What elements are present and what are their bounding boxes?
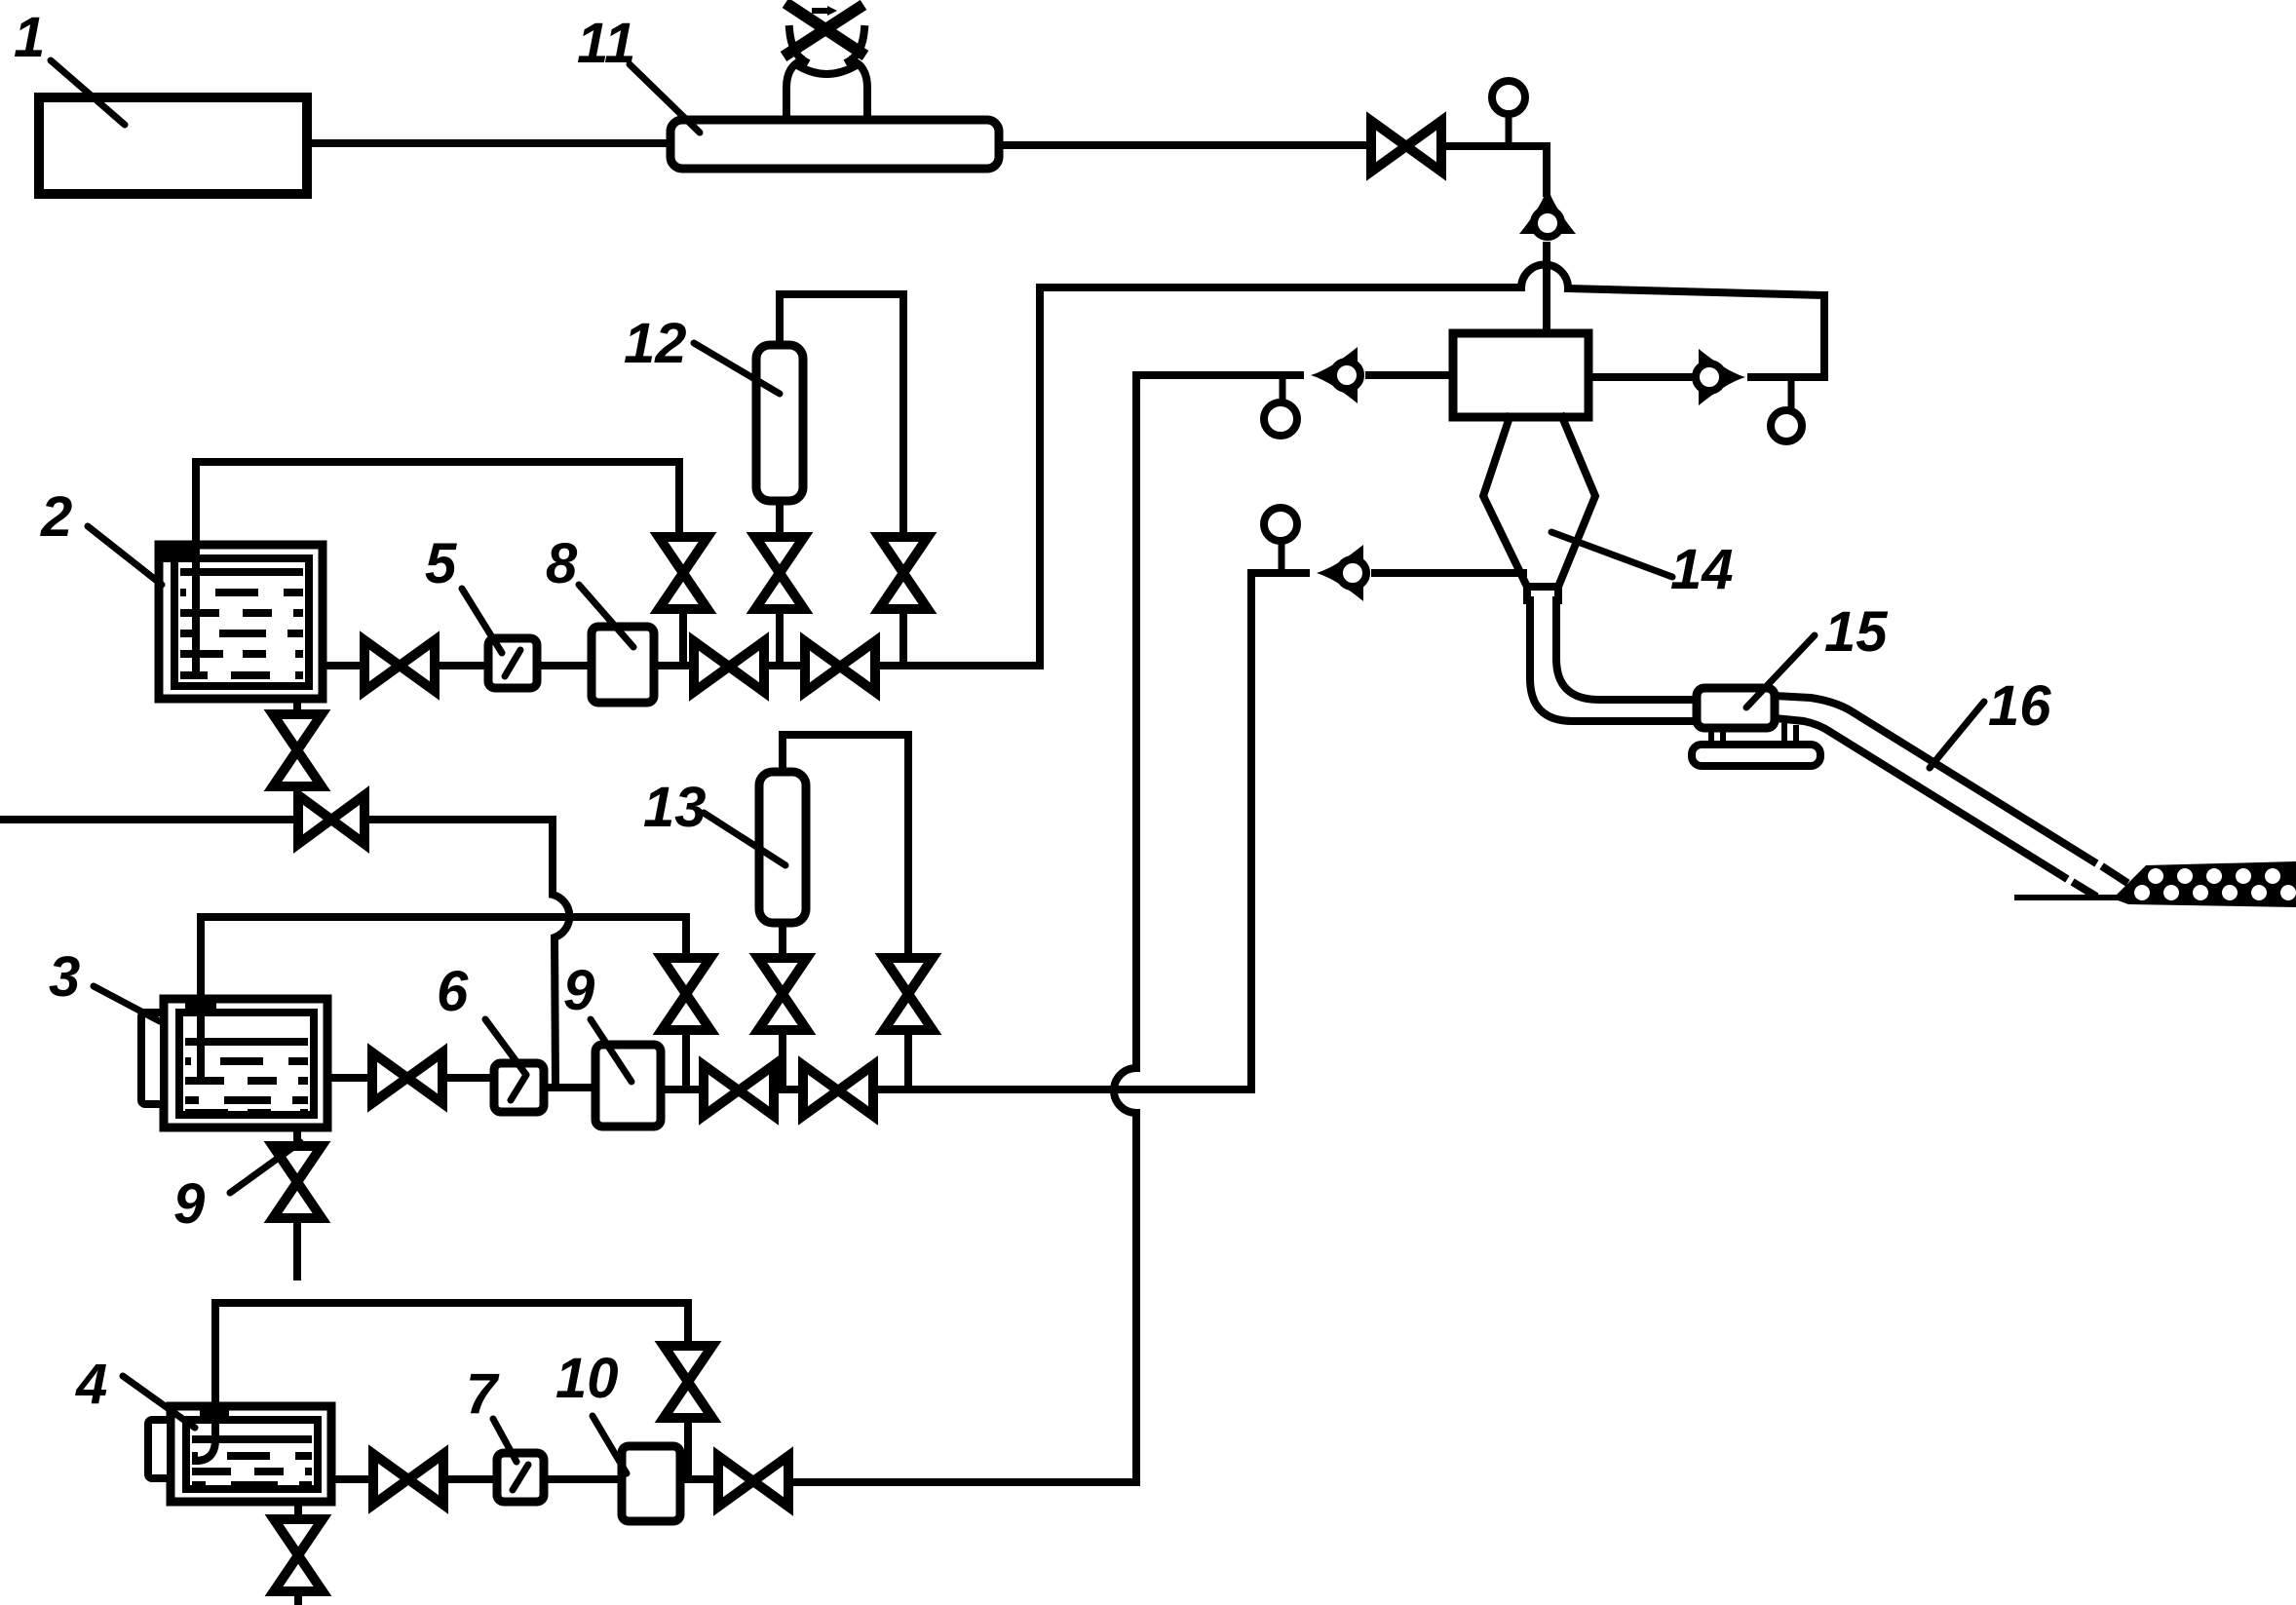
svg-text:3: 3 <box>49 945 80 1009</box>
check valve lower feed <box>1317 545 1366 601</box>
granule pile <box>2113 861 2296 907</box>
wire check valve to venturi <box>1375 569 1523 577</box>
tank 2 <box>159 545 323 699</box>
valve under rotameter 13 <box>758 958 807 1030</box>
valve manifold3 left <box>704 1065 774 1116</box>
wire dryer 7 to heater 10 <box>544 1475 622 1483</box>
svg-text:2: 2 <box>40 485 72 549</box>
svg-text:10: 10 <box>555 1347 619 1410</box>
valve on top line <box>1371 121 1441 172</box>
burner symbol on mixer 11 <box>784 3 867 120</box>
svg-text:12: 12 <box>624 312 687 375</box>
label 4 <box>75 1353 195 1428</box>
tank 4 <box>148 1406 331 1502</box>
wire valve to dryer 5 <box>435 662 488 669</box>
tank 4 drain outlet <box>294 1591 302 1603</box>
svg-text:14: 14 <box>1670 538 1734 601</box>
ground line at discharge <box>2014 895 2149 900</box>
valve tank3 loop <box>662 958 710 1030</box>
svg-text:6: 6 <box>437 960 469 1023</box>
water line to drop with hop <box>364 820 569 1084</box>
tank 3 drain pipe <box>293 1127 301 1146</box>
label 15 <box>1746 600 1888 707</box>
svg-text:8: 8 <box>546 532 578 595</box>
svg-text:15: 15 <box>1824 600 1888 664</box>
wire drain valve to water line <box>293 786 301 820</box>
label 11 <box>577 12 700 133</box>
wire bypass valve to manifold2 <box>899 609 907 666</box>
valve on water line <box>298 795 364 844</box>
label 12 <box>624 312 780 394</box>
pipe riser from tank4 line with hop over manifold3 <box>787 375 1136 1482</box>
injector 14 venturi body <box>1483 417 1595 600</box>
wire valve to dryer 7 <box>443 1475 497 1483</box>
svg-text:1: 1 <box>14 6 45 69</box>
valve under rotameter 12 <box>755 537 804 609</box>
label 1 <box>14 6 125 125</box>
wire bypass valve to manifold3 <box>904 1030 912 1089</box>
valve tank2 loop <box>659 537 708 609</box>
label 5 <box>425 532 502 653</box>
wire check valve to distributor right <box>1588 373 1689 381</box>
wire dryer 6 to heater 9 <box>544 1084 595 1091</box>
wire valve to manifold3 <box>779 1030 786 1089</box>
wire valve to dryer 6 <box>442 1074 494 1082</box>
dryer 6 <box>494 1063 544 1112</box>
nozzle 15 <box>1692 688 1820 766</box>
label 6 <box>437 960 526 1075</box>
check valve right feed <box>1696 349 1745 405</box>
manifold tank3 row <box>661 1086 1251 1093</box>
svg-text:13: 13 <box>643 776 707 839</box>
label 8 <box>546 532 633 647</box>
valve tank4 loop <box>664 1346 712 1418</box>
wire tank1 to mixer 11 <box>307 139 670 147</box>
tank 2 drain valve <box>273 714 322 786</box>
valve tank2 outlet <box>364 640 435 691</box>
label 9 drain <box>173 1142 300 1236</box>
check valve up <box>1519 187 1576 237</box>
label 3 <box>49 945 160 1021</box>
dryer 7 <box>497 1453 544 1502</box>
wire valve to corner <box>1441 146 1547 193</box>
tank 3 drain valve <box>273 1146 322 1218</box>
wire heater 10 to valve <box>680 1475 719 1483</box>
water line from left edge <box>0 816 298 823</box>
pipe main header with hop <box>1043 264 1824 295</box>
valve bypass 12 <box>879 537 928 609</box>
rotameter 12 <box>756 345 803 501</box>
wire valve to manifold2 <box>776 609 784 666</box>
label 13 <box>643 776 785 865</box>
manifold tank2 row <box>654 287 1040 666</box>
wire loop valve down <box>684 1418 692 1479</box>
tank 2 drain pipe <box>293 699 301 714</box>
label 9 heater <box>563 959 631 1082</box>
label 7 <box>466 1362 517 1462</box>
wire check valve to distributor left <box>1369 371 1453 379</box>
label 2 <box>40 485 162 585</box>
tank 3 drain outlet <box>293 1218 301 1277</box>
pipe tank4 vapour loop <box>215 1303 688 1406</box>
valve tank4 outlet <box>373 1454 443 1505</box>
valve manifold3 right <box>803 1065 873 1116</box>
heater 9 <box>595 1045 661 1127</box>
pressure gauge on top line <box>1492 81 1525 144</box>
wire tank3 outlet <box>327 1074 372 1082</box>
wire loop valve to manifold3 <box>682 1030 690 1089</box>
tank 4 drain pipe <box>294 1502 302 1519</box>
tank 4 drain valve <box>274 1519 323 1591</box>
valve tank4 line to riser <box>718 1456 788 1507</box>
svg-text:16: 16 <box>1988 674 2051 738</box>
wire tank2 outlet <box>323 662 364 669</box>
rotameter 13 <box>759 772 806 923</box>
valve manifold2 left <box>694 641 764 692</box>
label 14 <box>1551 532 1734 601</box>
mixer 11 body <box>670 120 999 169</box>
valve bypass 13 <box>884 958 933 1030</box>
wire loop valve to manifold <box>679 609 687 666</box>
svg-text:9: 9 <box>173 1172 205 1236</box>
wire rotameter 12 bottom <box>776 501 784 537</box>
distributor box of injector 14 <box>1453 333 1588 417</box>
valve manifold2 right <box>805 641 875 692</box>
discharge tube from venturi (double line) <box>1530 600 2124 895</box>
pipe left feed to distributor <box>1136 371 1300 379</box>
wire dryer 5 to heater 8 <box>537 662 592 669</box>
pipe lower feed into venturi <box>1251 569 1306 577</box>
pressure gauge hanging below left feed <box>1264 378 1297 436</box>
svg-text:5: 5 <box>425 532 457 595</box>
wire check valve to distributor <box>1543 246 1550 333</box>
tank 3 <box>141 999 327 1127</box>
pressure gauge below right pipe <box>1771 380 1802 441</box>
tank 1 <box>39 97 307 194</box>
pipe tank3 vapour loop <box>201 917 686 999</box>
valve tank3 outlet <box>372 1052 442 1103</box>
label 16 <box>1930 674 2051 768</box>
wire tank4 outlet <box>331 1475 373 1483</box>
pressure gauge on lower feed <box>1264 508 1297 570</box>
rotameter 12 bypass loop <box>780 294 903 537</box>
dryer 5 <box>488 638 537 688</box>
heater 8 <box>592 627 654 703</box>
check valve left feed <box>1311 347 1360 403</box>
label 10 <box>555 1347 627 1473</box>
rotameter 13 bypass loop <box>783 735 908 958</box>
pipe header right drop <box>1751 295 1824 377</box>
svg-text:9: 9 <box>563 959 594 1022</box>
pipe riser from tank3 manifold to lower feed <box>1160 573 1251 1089</box>
svg-text:4: 4 <box>75 1353 107 1416</box>
pipe tank2 vapour loop <box>196 462 679 545</box>
wire mixer 11 to valve <box>999 141 1371 149</box>
wire rotameter 13 bottom <box>779 923 786 958</box>
heater 10 <box>622 1446 680 1521</box>
